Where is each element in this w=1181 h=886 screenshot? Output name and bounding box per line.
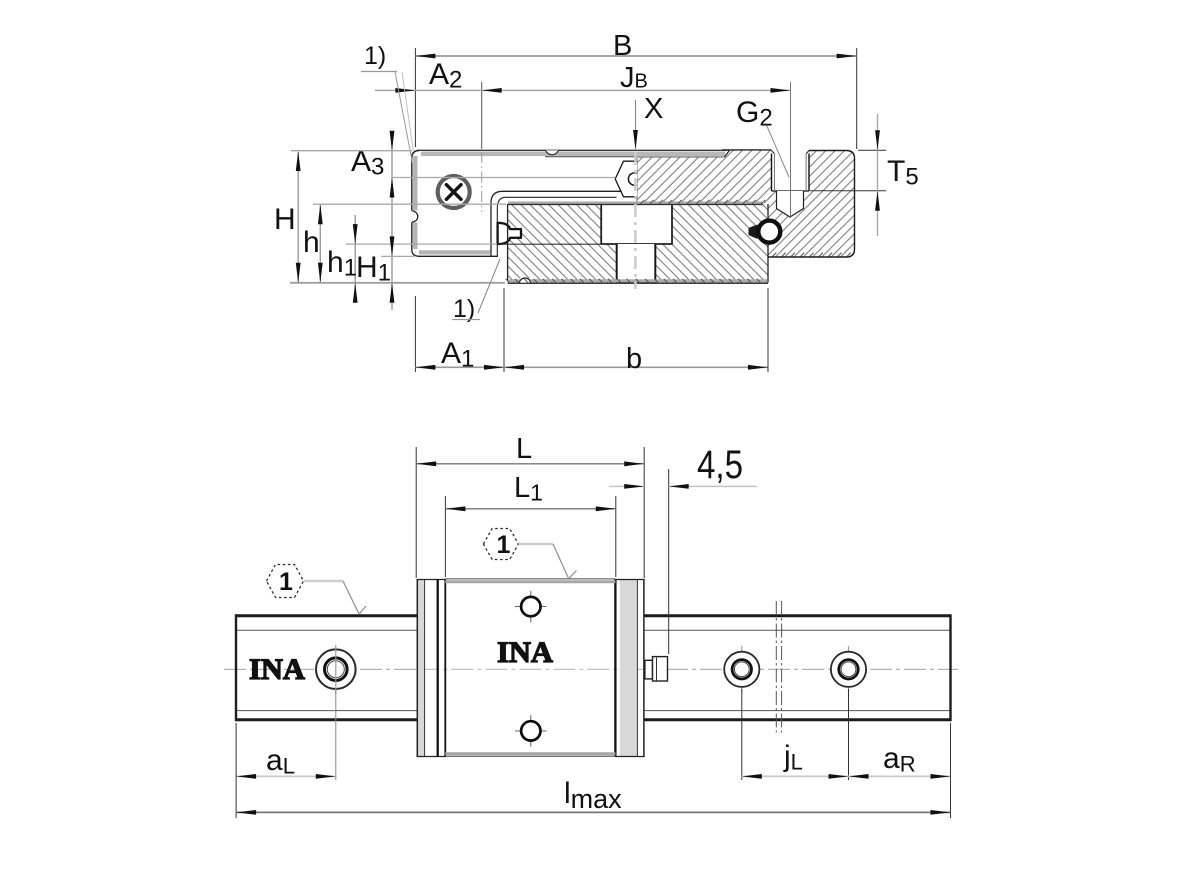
- hexagon callout 1 on carriage: [483, 529, 576, 579]
- saddle plate bend outer line: [491, 191, 623, 257]
- right end block outline: [768, 151, 855, 258]
- dimension B: [415, 30, 856, 149]
- svg-text:L: L: [516, 433, 532, 465]
- carriage INA logo: [497, 636, 553, 669]
- svg-text:H: H: [274, 203, 296, 236]
- svg-text:1): 1): [364, 42, 386, 70]
- svg-text:b: b: [626, 343, 642, 375]
- callout 1) bottom: [452, 259, 500, 323]
- carriage main body edges: [445, 579, 615, 756]
- dimension JB: [375, 62, 791, 149]
- carriage centerline over body: [417, 668, 644, 670]
- white pocket in lower block: [601, 203, 672, 244]
- dimension jL: [742, 689, 849, 780]
- hatch end ticks boundary: [640, 200, 765, 204]
- G2 pilot hole: [777, 191, 804, 217]
- end cap outline (left white block): [412, 151, 497, 257]
- hex screw head: [615, 161, 637, 197]
- saddle/rail joint line left of pocket: [498, 243, 602, 245]
- top surface notch: [546, 150, 559, 154]
- top step and boss edge: [722, 150, 772, 157]
- hatched right end block: [768, 151, 855, 258]
- hatched saddle upper band: [637, 151, 772, 204]
- svg-text:1: 1: [497, 531, 511, 559]
- grease nipple: [645, 657, 668, 681]
- dimension lmax: [236, 723, 950, 818]
- BOTTOM VIEW GROUPS INSERTED HERE: [224, 433, 958, 818]
- seal hook: [498, 223, 521, 244]
- white screw slot in lower block: [616, 244, 657, 282]
- dimension A2: [395, 58, 462, 94]
- bottom edge joint bump: [520, 278, 531, 283]
- svg-text:h: h: [303, 226, 320, 259]
- hatch end ticks right block bottom: [772, 253, 851, 257]
- dimension aR: [849, 742, 951, 779]
- saddle/rail boundary line: [508, 203, 763, 205]
- TOP VIEW GROUPS INSERTED HERE: [274, 30, 919, 375]
- dimension A1: [415, 288, 768, 373]
- hatch end ticks bottom edge: [506, 279, 761, 283]
- rail centerline: [224, 668, 958, 670]
- dimension b: [504, 288, 768, 375]
- carriage screw hole top: [515, 591, 547, 623]
- rail hole left: [316, 645, 356, 694]
- rail body: [236, 614, 951, 721]
- G2 label and leader: [736, 96, 789, 177]
- rail chamfer lines: [237, 630, 950, 710]
- svg-text:4,5: 4,5: [697, 443, 743, 487]
- G2 centerline / JB extension: [790, 82, 792, 218]
- svg-text:INA: INA: [249, 653, 305, 686]
- lower block edges: [508, 204, 768, 283]
- end cap left edge notch: [410, 211, 420, 223]
- G2 tapped hole: [772, 151, 810, 192]
- saddle plate bend inner line: [497, 197, 616, 257]
- dimension H1: [356, 236, 414, 302]
- screw centerline X axis: [634, 152, 637, 289]
- X arrow: [633, 93, 663, 150]
- hexagon callout 1 on rail: [267, 565, 367, 615]
- carriage right seal band: [615, 580, 645, 757]
- dimension L1: [445, 472, 615, 577]
- dimension H: [274, 151, 505, 283]
- ball: [749, 221, 781, 243]
- rail hole middle: [724, 646, 759, 693]
- lubrication port circled X symbol: [438, 176, 470, 208]
- dimension 4,5: [609, 443, 757, 654]
- dimension aL: [236, 688, 336, 780]
- hatched lower rail block: [508, 204, 768, 283]
- carriage screw hole bottom: [515, 715, 547, 747]
- carriage left seal band: [417, 580, 447, 757]
- carriage body white background: [417, 578, 644, 758]
- callout 1) top left: [361, 42, 414, 163]
- dimension h1: [327, 215, 497, 303]
- top surface line left portion with thick gray band: [417, 150, 727, 203]
- rail INA logo: [249, 653, 305, 686]
- rail hole right: [831, 646, 866, 693]
- svg-text:1: 1: [279, 568, 293, 596]
- dimension h: [303, 204, 506, 283]
- rail break lines: [776, 601, 781, 733]
- svg-text:B: B: [613, 30, 632, 62]
- svg-text:1): 1): [453, 295, 475, 323]
- dimension L: [416, 433, 644, 578]
- svg-text:X: X: [644, 93, 663, 125]
- left port centerline: [481, 152, 483, 212]
- dimension A3: [351, 131, 616, 310]
- svg-text:INA: INA: [497, 636, 553, 669]
- dimension T5: [810, 114, 919, 236]
